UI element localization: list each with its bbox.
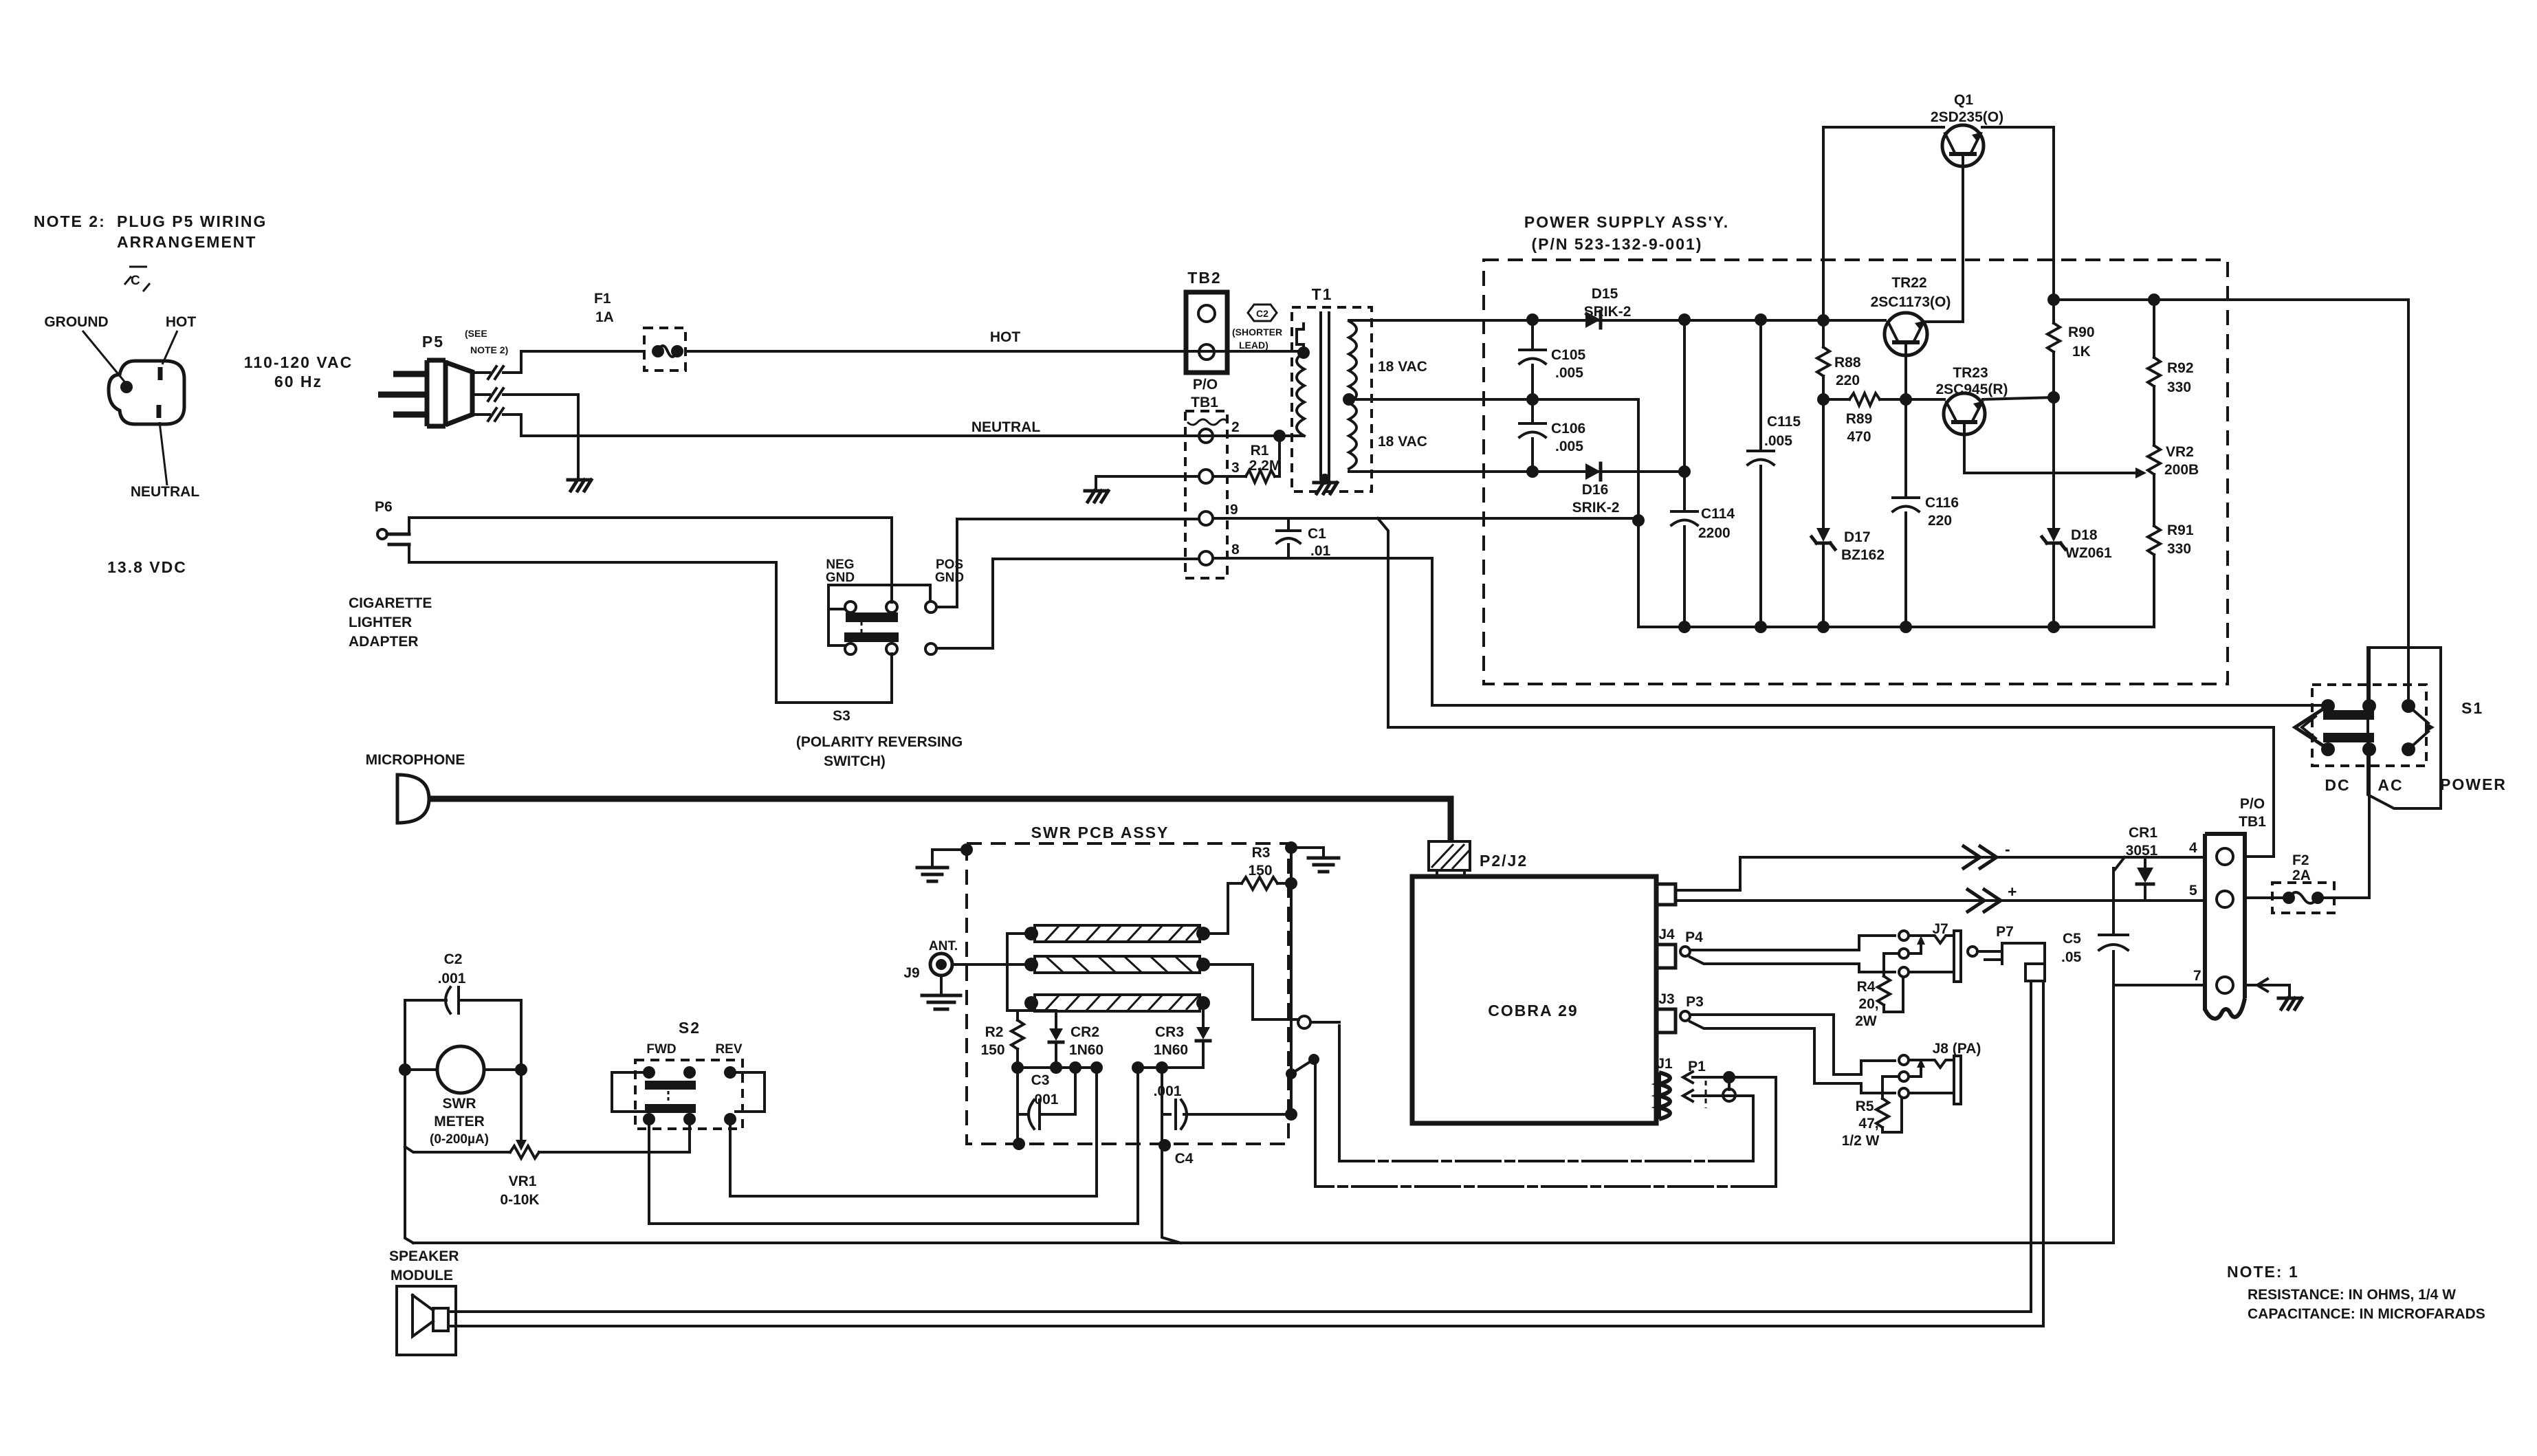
S1 feed stubs bbox=[2368, 648, 2371, 700]
resistor R5 bbox=[1882, 1077, 1899, 1099]
svg-text:C3: C3 bbox=[1031, 1072, 1050, 1088]
connector P2/J2 bbox=[1429, 841, 1470, 870]
pin 8 wire to DC line bbox=[1213, 558, 2322, 705]
svg-text:NEUTRAL: NEUTRAL bbox=[971, 419, 1040, 435]
ground symbol pin 3 bbox=[1085, 491, 1108, 502]
left tie bracket striplines bbox=[1007, 934, 1056, 1011]
svg-text:R90: R90 bbox=[2068, 324, 2095, 340]
junction dot center tap / pin9 bbox=[1632, 514, 1645, 527]
power supply dashed box bbox=[1484, 260, 2228, 684]
svg-text:1/2 W: 1/2 W bbox=[1842, 1133, 1880, 1149]
svg-text:PLUG P5 WIRING: PLUG P5 WIRING bbox=[117, 212, 267, 230]
potentiometer VR2 bbox=[2148, 445, 2160, 474]
capacitor C116 bbox=[1893, 399, 1919, 627]
svg-text:2SD235(O): 2SD235(O) bbox=[1931, 109, 2003, 125]
svg-text:Q1: Q1 bbox=[1954, 92, 1973, 108]
wire to S2 REV bbox=[730, 1068, 1097, 1196]
svg-text:GND: GND bbox=[935, 571, 964, 585]
svg-text:ADAPTER: ADAPTER bbox=[349, 634, 419, 650]
svg-text:.001: .001 bbox=[1154, 1083, 1182, 1099]
svg-text:9: 9 bbox=[1230, 502, 1238, 518]
svg-text:HOT: HOT bbox=[166, 314, 197, 330]
chevron connector plus bbox=[1968, 890, 2001, 912]
svg-text:DC: DC bbox=[2325, 776, 2350, 794]
right ground and vertical bus of SWR box bbox=[1285, 841, 1297, 854]
T1 secondary winding bbox=[1349, 321, 1357, 469]
svg-text:C1: C1 bbox=[1308, 526, 1326, 542]
jack J3 tab bbox=[1656, 1009, 1676, 1033]
diode D16 bbox=[1585, 463, 1601, 480]
branch diagonal to DC line bbox=[1378, 518, 2274, 727]
svg-text:SWR PCB ASSY: SWR PCB ASSY bbox=[1031, 824, 1169, 841]
secondary bottom lead wire bbox=[1349, 470, 1684, 473]
svg-text:1N60: 1N60 bbox=[1069, 1042, 1103, 1058]
junction dot D16 anode bbox=[1526, 465, 1539, 478]
S3 bottom right wire to TB1 pin 8 bbox=[936, 559, 1199, 648]
svg-text:20,: 20, bbox=[1858, 996, 1878, 1012]
secondary center tap wire bbox=[1343, 393, 1355, 406]
svg-text:18 VAC: 18 VAC bbox=[1378, 434, 1427, 450]
svg-text:P2/J2: P2/J2 bbox=[1480, 852, 1528, 870]
break marks bbox=[488, 366, 503, 379]
svg-text:C2: C2 bbox=[1256, 308, 1268, 319]
resistor R92 bbox=[2153, 300, 2155, 357]
wire neutral from plug bbox=[472, 415, 1302, 436]
ground symbol below P5 bbox=[568, 480, 591, 491]
svg-text:TB2: TB2 bbox=[1187, 269, 1221, 287]
ground bus bottom of supply bbox=[1638, 626, 2154, 628]
TB1 pin 8 bbox=[1199, 551, 1213, 565]
resistor R4 bbox=[1884, 953, 1899, 976]
svg-text:R5: R5 bbox=[1856, 1099, 1874, 1114]
rectifier tie and capacitor C114 bbox=[1671, 320, 1698, 627]
svg-text:NEG: NEG bbox=[826, 558, 854, 572]
ground symbol pin 7 bbox=[2278, 998, 2302, 1009]
svg-text:7: 7 bbox=[2193, 968, 2201, 984]
S1 bottom middle wire to fuse F2 bbox=[2368, 756, 2371, 898]
svg-text:1N60: 1N60 bbox=[1154, 1042, 1188, 1058]
power switch S1 housing bbox=[2368, 648, 2441, 808]
revision symbol C bbox=[124, 267, 150, 291]
svg-text:GND: GND bbox=[826, 571, 855, 585]
svg-text:.01: .01 bbox=[1310, 543, 1331, 559]
svg-text:4: 4 bbox=[2189, 840, 2197, 856]
left vertical to rectifier bus bbox=[1822, 127, 1825, 320]
jack J4 tab bbox=[1656, 945, 1676, 968]
stripline 3 bbox=[1035, 995, 1200, 1011]
svg-text:(SHORTER: (SHORTER bbox=[1232, 327, 1282, 338]
svg-text:C106: C106 bbox=[1551, 421, 1585, 437]
ground line L2 to SWR bbox=[1315, 1185, 1776, 1188]
S1 dashed box bbox=[2312, 685, 2426, 766]
svg-text:POWER: POWER bbox=[2440, 775, 2507, 793]
wire fuse to TB2 to T1 bbox=[685, 350, 1304, 353]
svg-text:J9: J9 bbox=[903, 965, 919, 981]
meter loop verticals bbox=[405, 1000, 413, 1243]
resistor R89 bbox=[1823, 398, 1849, 401]
svg-text:NOTE 2): NOTE 2) bbox=[470, 344, 508, 355]
P6 top wire to S3 bbox=[409, 518, 892, 602]
svg-text:F1: F1 bbox=[594, 291, 611, 307]
svg-text:AC: AC bbox=[2377, 776, 2403, 794]
svg-text:LEAD): LEAD) bbox=[1239, 340, 1268, 351]
TR23 emitter wire to VR2 bbox=[1964, 434, 2135, 473]
svg-text:CR2: CR2 bbox=[1070, 1024, 1099, 1040]
antenna output circle and Z wire bbox=[1203, 964, 1299, 1019]
svg-text:D16: D16 bbox=[1582, 482, 1609, 498]
svg-text:R4: R4 bbox=[1857, 979, 1876, 995]
svg-text:NOTE: 1: NOTE: 1 bbox=[2227, 1263, 2299, 1281]
svg-text:D18: D18 bbox=[2071, 527, 2098, 543]
svg-text:2200: 2200 bbox=[1698, 525, 1731, 541]
TB1 pin 4 bbox=[2217, 848, 2233, 865]
svg-text:R2: R2 bbox=[985, 1024, 1004, 1040]
svg-text:330: 330 bbox=[2167, 379, 2191, 395]
svg-text:CR1: CR1 bbox=[2129, 825, 2157, 841]
svg-text:3051: 3051 bbox=[2126, 843, 2158, 859]
svg-text:.05: .05 bbox=[2061, 949, 2082, 965]
svg-text:13.8 VDC: 13.8 VDC bbox=[107, 558, 187, 576]
svg-text:P7: P7 bbox=[1996, 924, 2014, 940]
svg-text:18 VAC: 18 VAC bbox=[1378, 359, 1427, 375]
T1 core ground bbox=[1319, 474, 1330, 485]
svg-text:RESISTANCE: IN OHMS, 1/4 W: RESISTANCE: IN OHMS, 1/4 W bbox=[2248, 1287, 2456, 1303]
note 2 text block bbox=[34, 212, 267, 251]
svg-text:LIGHTER: LIGHTER bbox=[349, 615, 412, 630]
svg-text:P6: P6 bbox=[375, 499, 393, 515]
svg-text:(SEE: (SEE bbox=[465, 328, 487, 339]
TB1 pin 3 bbox=[1199, 470, 1213, 483]
svg-text:NEUTRAL: NEUTRAL bbox=[131, 484, 199, 500]
svg-text:J4: J4 bbox=[1658, 927, 1675, 942]
TR23 collector wire bbox=[1983, 397, 2054, 399]
svg-text:METER: METER bbox=[434, 1114, 485, 1129]
S1 slide bars bbox=[2323, 710, 2374, 720]
svg-text:3: 3 bbox=[1231, 460, 1240, 476]
resistor R91 bbox=[2148, 526, 2160, 555]
svg-text:F2: F2 bbox=[2292, 852, 2309, 868]
minus wire from cobra to TB1 pin 4 bbox=[1676, 727, 2274, 890]
svg-text:GROUND: GROUND bbox=[44, 314, 108, 330]
stripline 2 antenna bbox=[1035, 956, 1200, 973]
pin 3 ground wire bbox=[1096, 476, 1199, 489]
svg-text:REV: REV bbox=[715, 1042, 742, 1057]
svg-text:P/O: P/O bbox=[1193, 377, 1218, 393]
svg-text:R3: R3 bbox=[1252, 845, 1271, 861]
stripline 1 bbox=[1035, 925, 1200, 942]
svg-text:220: 220 bbox=[1928, 513, 1952, 529]
svg-text:VR1: VR1 bbox=[509, 1173, 537, 1189]
svg-text:T1: T1 bbox=[1312, 285, 1333, 303]
svg-text:+: + bbox=[2008, 883, 2018, 901]
ground return long wire bbox=[413, 1242, 2113, 1244]
svg-text:J1: J1 bbox=[1656, 1056, 1673, 1072]
capacitor C115 bbox=[1748, 320, 1774, 627]
svg-text:C5: C5 bbox=[2063, 931, 2081, 947]
svg-text:FWD: FWD bbox=[646, 1042, 676, 1057]
TB1 pin 9 bbox=[1199, 511, 1213, 525]
S3 slide bars bbox=[846, 613, 898, 622]
svg-text:ARRANGEMENT: ARRANGEMENT bbox=[117, 233, 256, 251]
svg-text:WZ061: WZ061 bbox=[2065, 545, 2112, 561]
svg-text:(P/N 523-132-9-001): (P/N 523-132-9-001) bbox=[1532, 235, 1703, 253]
chevron connector minus bbox=[1964, 846, 1997, 868]
T1 primary winding bbox=[1297, 324, 1304, 353]
S3 neg gnd rail bbox=[828, 585, 930, 646]
pin 7 ground wire bbox=[2113, 985, 2289, 997]
T1 core bbox=[1321, 313, 1329, 476]
S2 side brackets bbox=[612, 1072, 649, 1112]
svg-text:P/O: P/O bbox=[2240, 796, 2265, 812]
svg-text:R92: R92 bbox=[2167, 360, 2194, 376]
svg-text:SWITCH): SWITCH) bbox=[824, 753, 886, 769]
polarity switch S3 bbox=[826, 558, 964, 585]
speaker wire pair bbox=[451, 981, 2031, 1312]
hexagon C2 revision mark bbox=[1248, 305, 1277, 321]
svg-text:2W: 2W bbox=[1855, 1013, 1877, 1029]
svg-text:R89: R89 bbox=[1846, 411, 1873, 427]
svg-text:2A: 2A bbox=[2292, 868, 2311, 883]
svg-text:TR22: TR22 bbox=[1891, 275, 1926, 291]
zener D18 bbox=[2052, 397, 2055, 527]
svg-text:D15: D15 bbox=[1592, 286, 1618, 302]
Q1 base wire to TR22 collector bbox=[1924, 165, 1963, 322]
junction dot TR22 emitter bbox=[1900, 393, 1912, 406]
svg-text:R88: R88 bbox=[1834, 355, 1861, 371]
S3 pos gnd wire to TB1 pin 9 bbox=[936, 519, 1199, 607]
svg-text:2.2M: 2.2M bbox=[1249, 458, 1282, 474]
svg-text:(POLARITY REVERSING: (POLARITY REVERSING bbox=[796, 734, 963, 750]
secondary top lead wire bbox=[1349, 319, 1885, 322]
svg-text:P5: P5 bbox=[422, 333, 444, 351]
svg-text:CR3: CR3 bbox=[1155, 1024, 1184, 1040]
pin 9 wire to power supply bbox=[1213, 517, 1638, 520]
svg-text:NOTE 2:: NOTE 2: bbox=[34, 212, 106, 230]
svg-text:5: 5 bbox=[2189, 883, 2197, 898]
svg-text:C116: C116 bbox=[1925, 495, 1959, 511]
junction dot C105/C106 bbox=[1526, 393, 1539, 406]
svg-text:C2: C2 bbox=[444, 951, 463, 967]
Q1 emitter wire bbox=[1982, 127, 2054, 300]
svg-text:150: 150 bbox=[980, 1042, 1004, 1058]
svg-text:1K: 1K bbox=[2072, 344, 2091, 360]
P5 prongs bbox=[378, 374, 425, 415]
speaker icon bbox=[413, 1295, 448, 1336]
TB1 pin 5 bbox=[2217, 891, 2233, 907]
svg-text:SPEAKER: SPEAKER bbox=[389, 1248, 459, 1264]
svg-text:MICROPHONE: MICROPHONE bbox=[366, 752, 465, 768]
potentiometer VR1 bbox=[520, 1070, 523, 1140]
P6 bottom wire to S3 bbox=[409, 544, 892, 703]
svg-text:C4: C4 bbox=[1175, 1151, 1194, 1167]
svg-text:1A: 1A bbox=[595, 309, 614, 325]
svg-text:P3: P3 bbox=[1686, 994, 1704, 1010]
junction dot R1 top bbox=[1273, 430, 1286, 442]
S1 left arrow bbox=[2295, 709, 2322, 745]
svg-text:POS: POS bbox=[936, 558, 963, 572]
svg-text:60 Hz: 60 Hz bbox=[274, 373, 322, 390]
resistor R88 bbox=[1822, 320, 1825, 347]
svg-text:S1: S1 bbox=[2461, 699, 2483, 717]
Q1 collector wire bbox=[1823, 126, 1944, 129]
svg-text:J3: J3 bbox=[1658, 991, 1674, 1007]
S3 contact circles bbox=[845, 602, 856, 613]
svg-text:R91: R91 bbox=[2167, 522, 2194, 538]
plus wire from cobra to TB1 pin 5 bbox=[1676, 899, 2205, 902]
svg-text:SWR: SWR bbox=[443, 1096, 476, 1112]
svg-text:.005: .005 bbox=[1555, 439, 1583, 454]
svg-text:TB1: TB1 bbox=[1191, 395, 1218, 410]
svg-text:CAPACITANCE: IN MICROFARADS: CAPACITANCE: IN MICROFARADS bbox=[2248, 1306, 2485, 1322]
svg-text:(0-200µA): (0-200µA) bbox=[430, 1132, 489, 1147]
svg-text:.001: .001 bbox=[438, 971, 466, 986]
S1 contacts bbox=[2321, 699, 2335, 713]
svg-text:ANT.: ANT. bbox=[929, 939, 958, 953]
svg-text:2SC1173(O): 2SC1173(O) bbox=[1871, 294, 1951, 310]
svg-text:TB1: TB1 bbox=[2239, 814, 2266, 830]
svg-text:47,: 47, bbox=[1858, 1116, 1878, 1132]
SWR dashed box bbox=[967, 843, 1288, 1144]
svg-text:200B: 200B bbox=[2164, 462, 2199, 478]
svg-text:330: 330 bbox=[2167, 541, 2191, 557]
output wire to S1 bbox=[2047, 294, 2060, 306]
svg-text:S2: S2 bbox=[679, 1019, 701, 1037]
bus CR2 C3 bbox=[1018, 1066, 1097, 1069]
resistor R90 bbox=[2052, 300, 2055, 323]
capacitor C105 bbox=[1519, 320, 1546, 399]
svg-text:SRIK-2: SRIK-2 bbox=[1572, 500, 1620, 516]
svg-text:BZ162: BZ162 bbox=[1841, 547, 1885, 563]
svg-text:.005: .005 bbox=[1764, 433, 1792, 449]
S1 right rotor bbox=[2408, 706, 2428, 749]
wire ground prong bbox=[472, 395, 578, 478]
svg-text:S3: S3 bbox=[833, 708, 850, 724]
svg-text:110-120 VAC: 110-120 VAC bbox=[244, 353, 353, 371]
SWR meter bbox=[437, 1046, 484, 1093]
svg-text:J8 (PA): J8 (PA) bbox=[1933, 1041, 1981, 1057]
wire hot from plug to fuse bbox=[472, 351, 644, 373]
left ground of SWR box bbox=[960, 843, 973, 856]
svg-text:P4: P4 bbox=[1685, 929, 1703, 945]
svg-text:COBRA 29: COBRA 29 bbox=[1488, 1002, 1578, 1019]
svg-text:HOT: HOT bbox=[990, 329, 1021, 345]
svg-text:8: 8 bbox=[1231, 542, 1240, 558]
cobra 29 radio box bbox=[1412, 876, 1656, 1123]
junction dots rectifier bus bbox=[1526, 313, 1539, 326]
svg-text:CIGARETTE: CIGARETTE bbox=[349, 595, 432, 611]
TB1 pin 7 bbox=[2217, 977, 2233, 993]
svg-text:0-10K: 0-10K bbox=[500, 1192, 539, 1208]
svg-text:MODULE: MODULE bbox=[391, 1268, 453, 1283]
capacitor C106 bbox=[1519, 399, 1546, 472]
svg-text:.005: .005 bbox=[1555, 365, 1583, 381]
plug P5 face drawing bbox=[109, 361, 184, 424]
junction dot R88/R89 bbox=[1817, 393, 1830, 406]
T1 junction dot hot bbox=[1297, 346, 1310, 359]
svg-text:C115: C115 bbox=[1767, 414, 1801, 430]
svg-text:470: 470 bbox=[1847, 429, 1871, 445]
microphone cable thick bbox=[428, 799, 1451, 841]
svg-text:D17: D17 bbox=[1844, 529, 1871, 545]
svg-text:R1: R1 bbox=[1251, 443, 1269, 459]
junction dot D16 cathode bbox=[1678, 465, 1691, 478]
capacitor C1 bbox=[1277, 518, 1300, 558]
cobra dc tab bbox=[1656, 884, 1676, 905]
svg-text:2: 2 bbox=[1231, 419, 1240, 435]
svg-text:POWER SUPPLY ASS'Y.: POWER SUPPLY ASS'Y. bbox=[1524, 213, 1729, 231]
svg-text:-: - bbox=[2005, 840, 2012, 858]
wire to S2 FWD bbox=[649, 1068, 1138, 1224]
svg-text:C105: C105 bbox=[1551, 347, 1586, 363]
zener D17 bbox=[1822, 399, 1825, 527]
antenna line L1 to SWR bbox=[1339, 1160, 1753, 1162]
svg-text:C: C bbox=[131, 274, 140, 288]
svg-text:220: 220 bbox=[1836, 373, 1860, 388]
svg-text:C114: C114 bbox=[1701, 506, 1735, 522]
svg-text:VR2: VR2 bbox=[2166, 444, 2194, 460]
svg-text:TR23: TR23 bbox=[1953, 365, 1988, 381]
TB1 pin 2 bbox=[1199, 429, 1213, 443]
